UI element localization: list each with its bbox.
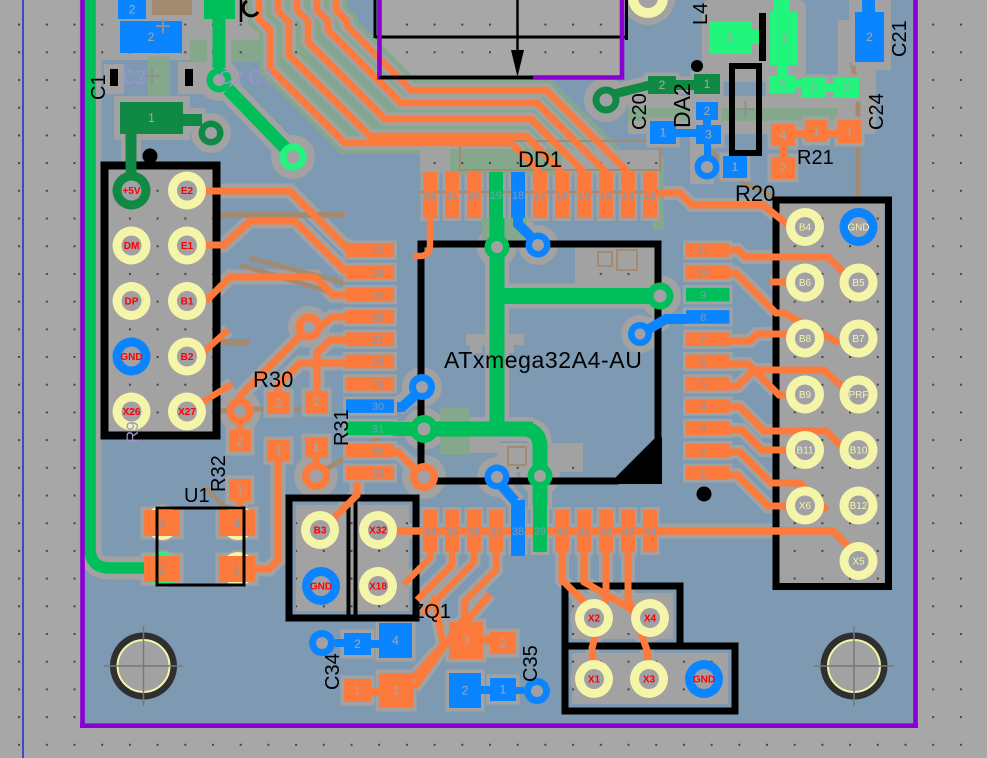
wire: pad18 to via — [518, 216, 534, 240]
pin 1 — [686, 466, 730, 480]
svg-text:1: 1 — [234, 562, 241, 576]
wire: X32 to bottom bus — [394, 528, 402, 535]
halo bundle of five traces (greenish clearance) — [259, 0, 540, 172]
pin 28 — [346, 355, 394, 369]
svg-text:C24: C24 — [866, 93, 888, 130]
pour halo around L4 — [702, 0, 806, 82]
pin 16 — [555, 172, 569, 218]
svg-text:DP: DP — [125, 297, 139, 308]
wire: R30 bottom to U1 pad1 — [252, 459, 278, 569]
halo G2 — [219, 19, 285, 148]
pad GND — [113, 338, 151, 376]
svg-text:1: 1 — [727, 31, 734, 45]
halo C1 — [114, 96, 190, 140]
pin 34 — [423, 510, 437, 552]
svg-text:C20: C20 — [629, 93, 651, 130]
halo chip right traces — [729, 250, 848, 395]
svg-text:X18: X18 — [369, 582, 387, 593]
svg-text:16: 16 — [556, 190, 568, 202]
wire: pad26 to via — [313, 317, 346, 327]
svg-text:GND: GND — [693, 675, 715, 686]
capacitor C35 (blue) — [449, 673, 481, 708]
pin 15 — [577, 172, 591, 218]
svg-text:41: 41 — [578, 526, 590, 538]
svg-text:X1: X1 — [588, 675, 601, 686]
svg-text:10: 10 — [697, 267, 709, 279]
svg-text:X3: X3 — [643, 675, 656, 686]
svg-text:40: 40 — [556, 526, 568, 538]
svg-text:14: 14 — [600, 190, 612, 202]
grid dots (on gray zones only) — [0, 0, 84, 758]
pad B4 — [786, 208, 824, 246]
pin 17 — [533, 172, 547, 218]
DA2 blue pads — [696, 102, 718, 120]
wire: DD1 pad12 to R21 — [657, 193, 787, 224]
wire: pad27 to R31 top — [317, 340, 346, 392]
wire: bottom bus to X5 — [400, 531, 858, 556]
pad DM — [113, 227, 151, 265]
svg-text:3: 3 — [463, 634, 470, 648]
wire: green horiz pad31 row — [424, 422, 533, 437]
svg-text:C34: C34 — [322, 653, 344, 690]
wire: via to pad8 — [649, 319, 686, 329]
pad B11 — [786, 431, 824, 469]
svg-text:29: 29 — [372, 379, 384, 391]
orange pads below C34 — [344, 679, 371, 702]
wire diagonal G2 — [228, 89, 285, 148]
X2/X4 outline — [565, 586, 680, 646]
halos of component pads — [107, 0, 888, 712]
svg-text:E1: E1 — [181, 241, 194, 252]
pin 20 — [467, 172, 481, 218]
svg-text:2: 2 — [659, 78, 666, 92]
pin 35 — [445, 510, 459, 552]
svg-text:R21: R21 — [797, 147, 834, 169]
pin 22 — [423, 172, 437, 218]
wires: bottom pads to X2/X4/X1/X3 — [562, 552, 594, 612]
halo blue bits — [397, 218, 665, 503]
decorative diagonals near X27/B2 — [196, 330, 232, 406]
green disc under U1 pad2 — [145, 552, 179, 586]
pad B12 — [840, 487, 878, 525]
wire: green elbow down to pad39 — [525, 429, 540, 505]
pin 37 — [489, 510, 503, 552]
svg-text:1: 1 — [393, 684, 400, 698]
black bar beside L4 — [759, 13, 766, 61]
svg-text:2: 2 — [500, 636, 507, 650]
svg-text:43: 43 — [622, 526, 634, 538]
svg-text:13: 13 — [622, 190, 634, 202]
svg-text:R30: R30 — [253, 367, 293, 392]
cutout arrow — [516, 0, 519, 52]
wire: via to R32 via — [240, 334, 302, 404]
svg-text:X27: X27 — [178, 407, 196, 418]
wire: R31 bottom to via — [313, 458, 320, 465]
pad B10 — [840, 431, 878, 469]
wire: pad28 to R30 top — [278, 363, 346, 393]
via G2b — [280, 144, 307, 171]
pin 2 — [686, 444, 730, 458]
svg-text:1: 1 — [660, 126, 667, 140]
mounting hole left — [104, 626, 183, 706]
pin 25 — [346, 288, 394, 302]
C2 small black pads — [110, 69, 118, 86]
svg-text:ZQ1: ZQ1 — [412, 601, 451, 623]
svg-text:33: 33 — [372, 468, 384, 480]
resistor R32 pads — [229, 430, 251, 452]
halo main green strip — [90, 0, 162, 568]
wire: main green strip left edge to U1 — [90, 0, 158, 568]
R20 outline — [776, 200, 889, 587]
origin cross on pad 19 — [487, 172, 507, 192]
svg-text:2: 2 — [148, 30, 155, 44]
svg-text:5: 5 — [700, 379, 706, 391]
via G2a — [207, 68, 232, 93]
wires: chip right to R20 — [729, 250, 848, 277]
wire: pad33 to B3 — [330, 482, 357, 522]
halos of chip pads — [343, 169, 733, 555]
svg-text:B10: B10 — [850, 446, 868, 457]
svg-text:R20: R20 — [735, 181, 775, 206]
pin 32 — [346, 444, 394, 458]
svg-text:X4: X4 — [644, 614, 657, 625]
svg-text:2: 2 — [700, 446, 706, 458]
svg-text:DA2: DA2 — [669, 83, 695, 128]
svg-text:24: 24 — [372, 267, 384, 279]
pad PRF — [840, 376, 878, 414]
halo chip left traces — [240, 317, 346, 396]
svg-text:B8: B8 — [799, 334, 812, 345]
svg-text:8: 8 — [700, 312, 706, 324]
wire: E1 to pad24 — [206, 221, 346, 272]
svg-text:DM: DM — [124, 241, 140, 252]
chip chamfer fill — [616, 437, 662, 484]
pour inside connector boxes — [106, 168, 213, 432]
svg-text:2: 2 — [866, 30, 873, 44]
svg-text:12: 12 — [644, 190, 656, 202]
svg-text:1: 1 — [237, 483, 244, 497]
svg-text:18: 18 — [512, 190, 524, 202]
svg-text:1: 1 — [704, 77, 711, 91]
svg-text:ATxmega32A4-AU: ATxmega32A4-AU — [444, 347, 642, 373]
blue guide line — [22, 0, 24, 758]
top-left pin1 arc — [243, 1, 258, 16]
svg-text:25: 25 — [372, 290, 384, 302]
svg-text:21: 21 — [446, 190, 458, 202]
via R32 — [227, 398, 254, 425]
svg-text:36: 36 — [468, 526, 480, 538]
pad B7 — [840, 320, 878, 358]
svg-text:9: 9 — [700, 290, 706, 302]
svg-text:4: 4 — [234, 516, 241, 530]
svg-text:U1: U1 — [184, 485, 210, 507]
svg-text:31: 31 — [372, 423, 384, 435]
svg-text:2: 2 — [313, 395, 320, 409]
svg-text:37: 37 — [490, 526, 502, 538]
svg-text:2: 2 — [159, 562, 166, 576]
halo pad12->R21 trace — [657, 193, 787, 224]
pour bands above DD1 top pads — [420, 150, 660, 173]
pin 8 — [686, 310, 730, 324]
svg-text:2: 2 — [843, 81, 850, 95]
pin 27 — [346, 332, 394, 346]
halo left connector traces — [206, 191, 352, 301]
svg-text:2: 2 — [237, 434, 244, 448]
svg-text:C1: C1 — [88, 74, 110, 100]
svg-text:23: 23 — [372, 245, 384, 257]
svg-text:C2 C7: C2 C7 — [219, 68, 273, 89]
wire: DD1 pad22 corner elbow — [414, 218, 430, 256]
svg-text:1: 1 — [313, 441, 320, 455]
pad +5V — [113, 172, 151, 210]
svg-text:1: 1 — [732, 160, 739, 174]
svg-text:1: 1 — [275, 444, 282, 458]
pin 23 — [346, 243, 394, 257]
pin 13 — [621, 172, 635, 218]
svg-text:X5: X5 — [852, 557, 865, 568]
svg-text:26: 26 — [372, 312, 384, 324]
pin 31 — [346, 422, 394, 436]
svg-text:32: 32 — [372, 446, 384, 458]
svg-text:R9: R9 — [123, 421, 142, 443]
via under R31 — [302, 462, 330, 490]
wire: pad32 to via — [393, 452, 423, 477]
pin 14 — [599, 172, 613, 218]
svg-text:15: 15 — [578, 190, 590, 202]
pin 39 — [533, 503, 547, 552]
svg-text:X6: X6 — [799, 501, 812, 512]
svg-text:R31: R31 — [331, 409, 353, 446]
svg-text:X26: X26 — [123, 407, 141, 418]
mounting hole right — [814, 626, 894, 706]
pad B1 — [168, 282, 206, 320]
wire: pad31 stub — [393, 422, 415, 436]
wire: pad37 to C35 pad1 — [414, 552, 496, 688]
IC U1 pads with mask circles — [145, 506, 179, 540]
pin 7 — [686, 332, 730, 346]
svg-text:B9: B9 — [799, 390, 812, 401]
wire: wide green to pad9 — [490, 288, 660, 304]
svg-text:2: 2 — [780, 161, 787, 175]
svg-text:B1: B1 — [181, 297, 194, 308]
svg-text:19: 19 — [490, 190, 502, 202]
svg-text:GND: GND — [310, 582, 332, 593]
pin 19 — [489, 172, 503, 218]
svg-text:17: 17 — [534, 190, 546, 202]
svg-text:X2: X2 — [588, 614, 601, 625]
svg-text:38: 38 — [512, 526, 524, 538]
via C20 — [593, 87, 620, 114]
svg-text:B2: B2 — [181, 352, 194, 363]
svg-text:4: 4 — [780, 128, 787, 142]
svg-text:PRF: PRF — [849, 390, 869, 401]
capacitor C24 (bright green row) — [769, 76, 795, 93]
tan bottom-layer traces — [140, 215, 345, 246]
pad X6 — [786, 487, 824, 525]
svg-text:3: 3 — [159, 516, 166, 530]
wire: C34 pad1 up — [413, 596, 443, 678]
pad E1 — [168, 227, 206, 265]
svg-text:DD1: DD1 — [518, 147, 562, 172]
svg-text:4: 4 — [392, 634, 399, 648]
svg-text:34: 34 — [424, 526, 436, 538]
wire: five orange traces bundle from top to DD1 pads 13-17 — [259, 0, 540, 172]
svg-text:B6: B6 — [799, 278, 812, 289]
pad X5 — [840, 542, 878, 580]
inductor L4 (bright green) — [709, 21, 752, 54]
pour patches inside chip — [575, 247, 662, 284]
component G2 top-left — [204, 0, 235, 19]
svg-text:+5V: +5V — [122, 186, 140, 197]
resistor R21 (orange) — [771, 124, 795, 146]
pin 6 — [686, 355, 730, 369]
pour band behind C24/R21 — [628, 96, 874, 134]
svg-text:GND: GND — [120, 352, 142, 363]
wire: ZQ1 pad3 up — [466, 594, 490, 622]
svg-text:1: 1 — [813, 124, 820, 138]
svg-text:2: 2 — [354, 637, 361, 651]
green vias — [485, 235, 510, 260]
pin 9 — [686, 288, 730, 302]
pin 5 — [686, 377, 730, 391]
svg-text:11: 11 — [697, 245, 708, 257]
pour halo around C21 — [849, 0, 891, 70]
pad B6 — [786, 264, 824, 302]
pin 38 — [511, 500, 525, 556]
pin 11 — [686, 243, 730, 257]
svg-text:1: 1 — [500, 683, 507, 697]
svg-text:35: 35 — [446, 526, 458, 538]
pin 30 — [346, 399, 394, 413]
svg-text:B11: B11 — [796, 446, 813, 457]
svg-text:42: 42 — [600, 526, 612, 538]
pin 43 — [621, 510, 635, 552]
svg-text:1: 1 — [700, 468, 706, 480]
svg-text:6: 6 — [700, 357, 706, 369]
resistors R30/R31 pads — [267, 392, 290, 414]
diode DA2 dark green pads — [648, 76, 676, 94]
svg-text:C35: C35 — [520, 645, 542, 682]
svg-text:2: 2 — [129, 3, 136, 17]
svg-text:39: 39 — [534, 526, 546, 538]
svg-text:30: 30 — [372, 401, 384, 413]
svg-text:4: 4 — [700, 401, 706, 413]
pin 33 — [346, 466, 394, 480]
wire: via to pad38 — [500, 484, 515, 501]
pin 18 — [511, 172, 525, 218]
pad E2 — [168, 172, 206, 210]
svg-text:2: 2 — [462, 684, 469, 698]
crystal outline — [732, 66, 759, 153]
svg-text:GND: GND — [847, 223, 869, 234]
svg-text:7: 7 — [700, 334, 706, 346]
cutout black rect lines — [375, 0, 627, 40]
pad DP — [113, 282, 151, 320]
pin 36 — [467, 510, 481, 552]
halos of through-hole pads — [108, 0, 882, 703]
cutout black bottom segment — [379, 76, 533, 79]
svg-text:C2: C2 — [122, 68, 146, 89]
svg-text:B7: B7 — [852, 334, 865, 345]
pin 10 — [686, 266, 730, 280]
pin 12 — [643, 172, 657, 218]
svg-text:22: 22 — [424, 190, 436, 202]
left connector outline — [105, 166, 217, 436]
svg-text:44: 44 — [644, 526, 656, 538]
svg-text:1: 1 — [781, 32, 788, 46]
capacitor C2 (blue, top-left) — [118, 0, 146, 19]
wires: pads 34/35/36 down-left — [404, 552, 430, 584]
capacitor C1 (dark green) — [120, 102, 183, 134]
pad GND — [840, 208, 878, 246]
wire: green trunk pad19 down — [490, 218, 505, 429]
halo C20/DA2 — [584, 78, 628, 122]
pin 24 — [346, 266, 394, 280]
svg-text:L4: L4 — [690, 3, 712, 25]
wire: E2 to pad23 — [206, 191, 352, 247]
pad at top edge near L4 — [628, 0, 668, 18]
wire: via to pad30 — [397, 392, 419, 407]
svg-text:28: 28 — [372, 357, 384, 369]
via chip-left — [296, 314, 323, 341]
svg-text:R32: R32 — [208, 455, 230, 492]
svg-text:X32: X32 — [369, 526, 387, 537]
svg-text:B3: B3 — [314, 526, 327, 537]
pin 4 — [686, 399, 730, 413]
svg-text:B12: B12 — [850, 501, 868, 512]
board cutout top-center — [380, 0, 623, 78]
pad B5 — [840, 264, 878, 302]
svg-text:E2: E2 — [181, 186, 194, 197]
pin 40 — [555, 510, 569, 552]
halo misc diagonals — [196, 330, 232, 406]
U1 outline — [157, 508, 244, 585]
orange pads right of ZQ1 — [449, 622, 483, 659]
wire: B1 to pad25 — [206, 277, 346, 301]
pin 26 — [346, 310, 394, 324]
wire: R32 segments — [237, 417, 244, 517]
svg-text:1: 1 — [354, 684, 361, 698]
svg-text:B5: B5 — [852, 278, 865, 289]
pin 42 — [599, 510, 613, 552]
halo trunk green — [424, 218, 540, 510]
pin 29 — [346, 377, 394, 391]
copper pour top-left region — [101, 0, 313, 60]
svg-text:1: 1 — [846, 125, 853, 139]
DD1 chip outline — [421, 244, 658, 481]
svg-text:2: 2 — [275, 396, 282, 410]
svg-text:20: 20 — [468, 190, 480, 202]
cutout purple edge — [380, 0, 623, 78]
pin 21 — [445, 172, 459, 218]
pad X27 — [168, 393, 206, 431]
pad B9 — [786, 376, 824, 414]
svg-text:5: 5 — [779, 78, 786, 92]
svg-text:27: 27 — [372, 334, 384, 346]
halo bottom long trace + connector feeds — [400, 531, 858, 556]
svg-text:B4: B4 — [799, 223, 812, 234]
pin 41 — [577, 510, 591, 552]
pin 3 — [686, 422, 730, 436]
svg-text:2: 2 — [704, 104, 711, 118]
svg-text:1: 1 — [148, 111, 155, 125]
via at chip corner — [410, 463, 438, 491]
pad B2 — [168, 338, 206, 376]
pad B8 — [786, 320, 824, 358]
capacitor C21 (blue) — [855, 12, 884, 62]
pin 44 — [643, 510, 657, 552]
X1/X3/GND outline — [565, 646, 735, 711]
